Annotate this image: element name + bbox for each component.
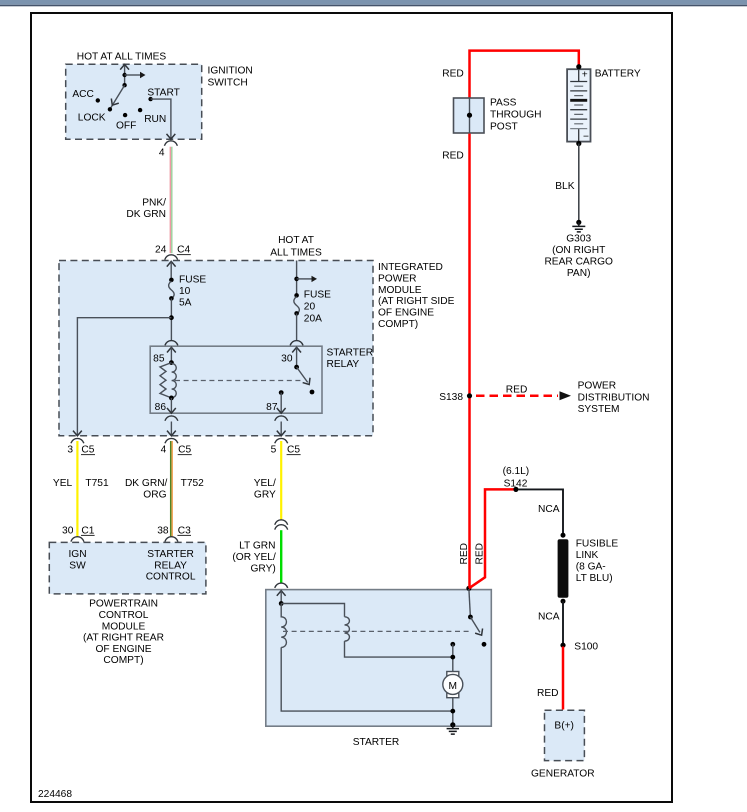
ground G303 bbox=[576, 220, 581, 225]
svg-text:ORG: ORG bbox=[143, 490, 166, 501]
svg-text:S138: S138 bbox=[439, 392, 463, 403]
wire RED S142 branch to starter bbox=[469, 489, 514, 588]
connector arc below IPM (4 C5) bbox=[165, 438, 178, 443]
svg-text:STARTER: STARTER bbox=[327, 348, 374, 359]
powertrain control module box bbox=[49, 542, 206, 594]
wire pin 30 stem bbox=[296, 347, 298, 367]
svg-text:FUSE: FUSE bbox=[179, 275, 206, 286]
svg-text:SYSTEM: SYSTEM bbox=[578, 404, 620, 415]
connector arc below ignition switch bbox=[164, 141, 177, 146]
svg-text:IGNITION: IGNITION bbox=[208, 66, 253, 77]
connector arc above relay pin 85 bbox=[165, 341, 178, 346]
svg-text:C1: C1 bbox=[81, 525, 94, 536]
svg-text:C4: C4 bbox=[177, 244, 190, 255]
svg-text:T752: T752 bbox=[181, 478, 205, 489]
wire NCA (fusible link to S100) bbox=[562, 601, 564, 644]
node lever pivot dot bbox=[122, 83, 126, 87]
svg-text:−: − bbox=[583, 132, 589, 143]
arrow down at ignition box bottom bbox=[167, 134, 176, 139]
svg-text:C5: C5 bbox=[81, 444, 94, 455]
node relay switch pivot bbox=[294, 365, 299, 370]
arrow up inside IPM at C4 entry bbox=[167, 261, 176, 266]
svg-text:B(+): B(+) bbox=[554, 720, 574, 731]
node pass through post bbox=[467, 113, 472, 118]
svg-text:REAR CARGO: REAR CARGO bbox=[544, 257, 613, 268]
svg-text:LT GRN: LT GRN bbox=[239, 540, 275, 551]
wire pin 86 exit bbox=[170, 398, 172, 413]
svg-text:20: 20 bbox=[304, 302, 316, 313]
svg-text:NCA: NCA bbox=[538, 611, 560, 622]
svg-text:(AT RIGHT REAR: (AT RIGHT REAR bbox=[83, 633, 164, 644]
arrow up inside relay pin 85 bbox=[167, 347, 176, 352]
arrow up inside relay pin 30 bbox=[292, 347, 301, 352]
label RED (S142 branch, rotated) bbox=[474, 543, 485, 565]
relay switch blade bbox=[297, 367, 308, 382]
svg-text:STARTER: STARTER bbox=[353, 737, 400, 748]
starter dashed actuation line bbox=[283, 630, 470, 632]
svg-text:RELAY: RELAY bbox=[154, 560, 187, 571]
node starter switch pivot bbox=[468, 615, 473, 620]
solenoid winding L2 bbox=[345, 617, 350, 641]
svg-text:S100: S100 bbox=[574, 642, 598, 653]
node feed junction dot (fuse 20) bbox=[294, 277, 299, 282]
relay coil K1 (zigzag + winding) bbox=[160, 363, 171, 398]
pass through post box bbox=[454, 98, 485, 133]
wire fuse 10 to junction bbox=[170, 298, 172, 341]
node ACC bbox=[96, 98, 100, 102]
node relay contact 87 bbox=[279, 390, 284, 395]
arrow down at IPM bottom (pin 4) bbox=[167, 431, 176, 436]
wire C4 entry to fuse 10 bbox=[170, 261, 172, 280]
svg-text:RUN: RUN bbox=[144, 114, 166, 125]
node starter blade rest bbox=[482, 642, 487, 647]
node LOCK bbox=[108, 107, 112, 111]
wire feed branch right (fuse 20) bbox=[297, 278, 312, 280]
connector arc below relay (87) bbox=[275, 416, 288, 421]
wire RED (S100 to generator) bbox=[562, 647, 565, 710]
svg-text:POWER: POWER bbox=[378, 273, 417, 284]
wire pin 87 exit bbox=[280, 393, 282, 413]
starter switch blade bbox=[470, 617, 480, 632]
svg-text:RED: RED bbox=[459, 543, 470, 565]
svg-text:ACC: ACC bbox=[72, 89, 94, 100]
svg-text:OF ENGINE: OF ENGINE bbox=[378, 308, 434, 319]
node battery positive bbox=[576, 64, 581, 69]
wire YEL/GRY (pin 5 to inline connector) bbox=[280, 441, 282, 519]
wire starter entry stem bbox=[280, 591, 282, 604]
svg-text:10: 10 bbox=[179, 286, 191, 297]
svg-text:LINK: LINK bbox=[576, 550, 599, 561]
svg-text:POST: POST bbox=[490, 122, 518, 133]
wire to hold-in winding bbox=[281, 604, 344, 617]
svg-text:RED: RED bbox=[442, 69, 464, 80]
svg-text:ALL TIMES: ALL TIMES bbox=[270, 248, 322, 259]
svg-text:+: + bbox=[582, 70, 588, 81]
svg-text:C5: C5 bbox=[178, 444, 191, 455]
arrow down at relay bottom (86) bbox=[167, 408, 176, 413]
node relay blade rest bbox=[310, 390, 315, 395]
svg-text:OF ENGINE: OF ENGINE bbox=[95, 644, 151, 655]
wire LT GRN (to starter solenoid) bbox=[280, 530, 282, 583]
svg-text:FUSE: FUSE bbox=[304, 290, 331, 301]
svg-text:30: 30 bbox=[281, 353, 293, 364]
svg-text:224468: 224468 bbox=[38, 789, 72, 800]
wire ignition feed stem bbox=[124, 65, 126, 85]
svg-text:PASS: PASS bbox=[490, 98, 517, 109]
svg-text:30: 30 bbox=[62, 525, 74, 536]
svg-text:4: 4 bbox=[159, 148, 165, 159]
svg-text:86: 86 bbox=[155, 402, 167, 413]
svg-text:38: 38 bbox=[157, 525, 169, 536]
svg-text:S142: S142 bbox=[504, 478, 528, 489]
starter relay box bbox=[150, 346, 322, 413]
connector arc above PCM (30 C1) bbox=[71, 537, 84, 542]
svg-text:C5: C5 bbox=[287, 444, 300, 455]
svg-text:BATTERY: BATTERY bbox=[595, 69, 641, 80]
svg-text:PNK/: PNK/ bbox=[142, 198, 166, 209]
wire winding L1 to ground run bbox=[281, 647, 453, 711]
svg-text:(8 GA-: (8 GA- bbox=[576, 561, 606, 572]
svg-text:DK GRN/: DK GRN/ bbox=[125, 478, 168, 489]
integrated power module box bbox=[59, 261, 373, 436]
arrow down at IPM bottom (pin 3) bbox=[73, 431, 82, 436]
ground (starter) bbox=[450, 722, 455, 727]
ignition switch box bbox=[66, 64, 202, 139]
svg-text:RELAY: RELAY bbox=[327, 359, 360, 370]
connector arc below IPM (3 C5) bbox=[71, 438, 84, 443]
svg-text:YEL/: YEL/ bbox=[254, 478, 276, 489]
node relay coil top bbox=[169, 360, 174, 365]
svg-text:YEL: YEL bbox=[53, 478, 73, 489]
motor M (starter motor) bbox=[447, 672, 459, 681]
svg-text:PAN): PAN) bbox=[567, 268, 591, 279]
node RUN bbox=[138, 108, 142, 112]
wire YEL (pin 3 to PCM 30) bbox=[76, 441, 78, 537]
arrow down at IPM bottom (pin 5) bbox=[277, 431, 286, 436]
svg-text:BLK: BLK bbox=[555, 181, 574, 192]
node red feed junction bbox=[466, 586, 471, 591]
wire RED battery feed (top run) bbox=[470, 51, 579, 98]
svg-text:(OR YEL/: (OR YEL/ bbox=[232, 552, 276, 563]
svg-text:4: 4 bbox=[161, 444, 167, 455]
wire RED dashed to power distribution bbox=[476, 395, 558, 398]
wire winding L2 to motor node bbox=[345, 641, 453, 657]
wire through pass through post bbox=[469, 98, 471, 133]
svg-text:RED: RED bbox=[474, 543, 485, 565]
svg-text:START: START bbox=[147, 87, 179, 98]
svg-text:SW: SW bbox=[69, 561, 86, 572]
node S138 bbox=[467, 393, 472, 398]
svg-text:NCA: NCA bbox=[538, 504, 560, 515]
wire fuse 20 to relay pin 30 bbox=[296, 313, 298, 340]
starter box bbox=[266, 590, 492, 727]
wire DK GRN/ORG (pin 4 to PCM 38) bbox=[170, 441, 172, 537]
arrow up inside starter entry bbox=[277, 591, 286, 596]
label RED (main feed, rotated) bbox=[459, 543, 470, 565]
svg-text:5A: 5A bbox=[179, 298, 192, 309]
svg-text:C3: C3 bbox=[178, 525, 191, 536]
wire START to pin 4 exit bbox=[151, 99, 171, 139]
arrow up at ignition box top bbox=[120, 64, 129, 69]
svg-text:87: 87 bbox=[266, 402, 278, 413]
svg-text:24: 24 bbox=[155, 244, 167, 255]
node START bbox=[148, 97, 152, 101]
inline connector (5 C5 to starter) bbox=[275, 520, 288, 525]
svg-text:COMPT): COMPT) bbox=[378, 319, 418, 330]
wire fuse 20 feed entry bbox=[296, 261, 298, 296]
svg-text:CONTROL: CONTROL bbox=[146, 572, 196, 583]
svg-text:G303: G303 bbox=[566, 234, 591, 245]
wire 87 to IPM bottom bbox=[280, 422, 282, 436]
svg-text:DK GRN: DK GRN bbox=[126, 209, 166, 220]
node junction to pin 3 branch bbox=[169, 315, 174, 320]
connector arc below IPM (5 C5) bbox=[275, 438, 288, 443]
svg-text:CONTROL: CONTROL bbox=[99, 610, 149, 621]
node relay coil bottom bbox=[169, 396, 174, 401]
wire 86 to IPM bottom bbox=[170, 422, 172, 436]
svg-text:LOCK: LOCK bbox=[78, 113, 106, 124]
svg-text:POWER: POWER bbox=[578, 381, 617, 392]
svg-text:RED: RED bbox=[506, 384, 528, 395]
svg-text:(AT RIGHT SIDE: (AT RIGHT SIDE bbox=[378, 296, 455, 307]
svg-text:5: 5 bbox=[271, 444, 277, 455]
node motor top junction bbox=[450, 655, 455, 660]
wire branch to pin 3 exit bbox=[77, 318, 171, 436]
node S142 bbox=[513, 487, 518, 492]
connector arc above PCM (38 C3) bbox=[165, 537, 178, 542]
connector arc above relay pin 30 bbox=[290, 341, 303, 346]
svg-text:GENERATOR: GENERATOR bbox=[531, 768, 595, 779]
svg-text:SWITCH: SWITCH bbox=[208, 78, 248, 89]
wire pin 85 stem bbox=[170, 347, 172, 362]
arrow down at relay bottom (87) bbox=[277, 408, 286, 413]
node OFF bbox=[123, 113, 127, 117]
switch lever (ignition) bbox=[111, 85, 125, 108]
wire feed branch right bbox=[125, 74, 140, 76]
svg-text:GRY): GRY) bbox=[251, 563, 276, 574]
svg-text:3: 3 bbox=[67, 444, 73, 455]
wire contact to motor bbox=[452, 644, 454, 672]
node solenoid feed junction bbox=[279, 601, 284, 606]
node fusible link bottom bbox=[561, 599, 566, 604]
fuse F20 bbox=[294, 293, 299, 298]
battery box bbox=[567, 69, 590, 141]
arrow feed right filled (fuse 20) bbox=[312, 276, 318, 282]
svg-text:POWERTRAIN: POWERTRAIN bbox=[89, 599, 158, 610]
node fusible link top bbox=[561, 533, 566, 538]
battery cell plates bbox=[578, 70, 580, 141]
solenoid winding L1 bbox=[281, 604, 286, 648]
arrow feed right (filled) bbox=[140, 72, 146, 78]
svg-text:RED: RED bbox=[537, 688, 559, 699]
connector arc above IPM (C4) bbox=[165, 255, 178, 260]
arrow to power distribution (filled) bbox=[560, 391, 572, 400]
connector arc below relay (86) bbox=[165, 416, 178, 421]
wire to starter switch pivot bbox=[469, 589, 471, 617]
fusible link (8 GA - LT BLU) bbox=[558, 539, 569, 597]
svg-text:DISTRIBUTION: DISTRIBUTION bbox=[578, 392, 650, 403]
node feed junction dot bbox=[122, 73, 126, 77]
svg-text:THROUGH: THROUGH bbox=[490, 110, 542, 121]
svg-text:20A: 20A bbox=[304, 314, 322, 325]
connector arc above starter entry bbox=[275, 583, 288, 588]
svg-text:INTEGRATED: INTEGRATED bbox=[378, 262, 443, 273]
wire BLK (battery to ground) bbox=[578, 144, 580, 222]
svg-text:IGN: IGN bbox=[68, 549, 86, 560]
svg-text:(ON RIGHT: (ON RIGHT bbox=[552, 245, 605, 256]
svg-text:85: 85 bbox=[153, 353, 165, 364]
node S100 bbox=[560, 643, 565, 648]
svg-text:STARTER: STARTER bbox=[147, 549, 194, 560]
top window bar bbox=[0, 0, 747, 5]
wire motor to ground bbox=[452, 698, 454, 725]
generator box bbox=[545, 710, 585, 760]
svg-text:OFF: OFF bbox=[116, 121, 136, 132]
wire RED (post to starter) bbox=[468, 134, 471, 588]
svg-text:(6.1L): (6.1L) bbox=[503, 466, 530, 477]
svg-text:HOT AT ALL TIMES: HOT AT ALL TIMES bbox=[77, 52, 167, 63]
svg-text:HOT AT: HOT AT bbox=[278, 235, 314, 246]
node starter contact bbox=[450, 642, 455, 647]
svg-text:M: M bbox=[449, 681, 458, 692]
svg-text:FUSIBLE: FUSIBLE bbox=[576, 538, 619, 549]
svg-text:MODULE: MODULE bbox=[102, 621, 146, 632]
wire PNK/DK GRN (ignition to IPM) bbox=[169, 147, 171, 254]
svg-text:MODULE: MODULE bbox=[378, 285, 422, 296]
svg-text:LT BLU): LT BLU) bbox=[576, 573, 613, 584]
wire NCA (S142 to fusible link) bbox=[518, 489, 563, 533]
svg-text:T751: T751 bbox=[85, 478, 109, 489]
node motor bottom junction bbox=[450, 709, 455, 714]
node battery negative bbox=[576, 141, 581, 146]
svg-text:GRY: GRY bbox=[254, 490, 276, 501]
relay dashed actuation line bbox=[175, 380, 303, 382]
fuse F10 bbox=[169, 278, 174, 283]
svg-text:RED: RED bbox=[442, 150, 464, 161]
svg-text:COMPT): COMPT) bbox=[103, 655, 143, 666]
